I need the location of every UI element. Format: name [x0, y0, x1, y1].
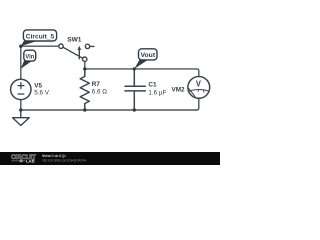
svg-text:SW1: SW1: [67, 37, 82, 44]
wire: top rail from switch junction to voltmeter: [85, 69, 199, 77]
voltage source V5: [11, 79, 31, 99]
junction: C1 on top rail: [133, 67, 136, 70]
svg-text:V: V: [196, 79, 202, 88]
wire: voltmeter bottom to bottom rail: [197, 98, 199, 110]
wire: bottom rail: [21, 109, 197, 111]
svg-text:C1: C1: [148, 82, 157, 89]
wire: left vertical from node down to V5 top: [20, 46, 22, 79]
svg-text:Circuit_5: Circuit_5: [26, 33, 55, 40]
node flag Vout: [134, 49, 157, 69]
wire: switch common down to top rail junction: [84, 61, 86, 69]
svg-text:Michael / Lab #1 Q4: Michael / Lab #1 Q4: [42, 153, 66, 158]
junction: top-left corner node: [19, 45, 22, 48]
junction: switch common on top rail: [83, 67, 86, 70]
resistor R7: [80, 69, 89, 110]
svg-text:http://circuitlab.com/c5a4ph34: http://circuitlab.com/c5a4ph34b04e: [42, 159, 86, 163]
junction: C1 on bottom rail: [133, 108, 136, 111]
svg-text:5.6 V: 5.6 V: [34, 89, 50, 96]
wire: V5 bottom to bottom rail: [20, 99, 22, 110]
banner bar: [0, 152, 220, 165]
wire: top-left node to switch left terminal: [21, 45, 59, 47]
junction: ground on bottom rail: [19, 108, 22, 111]
svg-text:Vout: Vout: [141, 52, 156, 59]
svg-text:Vin: Vin: [25, 53, 34, 60]
ground: [13, 110, 30, 126]
logo LAB: [12, 159, 35, 164]
svg-text:1.6 µF: 1.6 µF: [148, 89, 166, 96]
svg-text:R7: R7: [92, 81, 101, 88]
capacitor C1: [125, 69, 145, 110]
svg-text:VM2: VM2: [172, 87, 185, 94]
node flag Vin: [21, 50, 36, 69]
svg-text:6.6 Ω: 6.6 Ω: [92, 88, 108, 95]
junction: R7 on bottom rail: [83, 108, 86, 111]
switch SW1: [59, 44, 94, 61]
node flag Circuit_5: [21, 30, 57, 46]
svg-text:LAB: LAB: [26, 159, 35, 164]
voltmeter VM2: [188, 77, 210, 99]
